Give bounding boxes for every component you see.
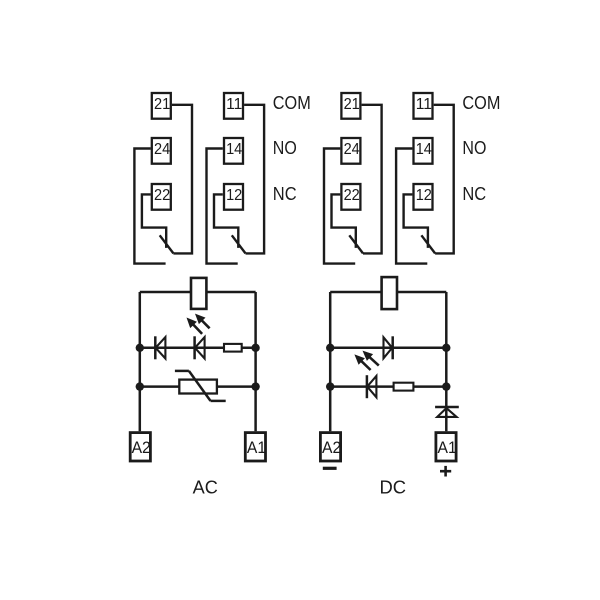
varistor RU top tail (AC) [175, 370, 189, 373]
wire left rail DC [329, 292, 332, 431]
svg-text:COM: COM [273, 93, 311, 113]
polarity plus (DC) [440, 470, 451, 473]
terminal box 21 (unit1 pole2) [152, 93, 171, 119]
junction dot DC [326, 382, 334, 390]
junction dot AC [251, 382, 259, 390]
svg-text:A2: A2 [132, 438, 151, 457]
diode V2 triangle (DC row1) [384, 337, 393, 358]
wire NO from 14 (unit1 pole1) [207, 149, 238, 264]
junction dot DC [442, 382, 450, 390]
wire NO from 24 (unit2 pole2) [324, 149, 355, 264]
resistor R1 (AC) [224, 344, 242, 352]
varistor RU diagonal (AC) [189, 371, 211, 401]
varistor RU bottom tail (AC) [211, 400, 226, 403]
wire NC from 22 with contact stub (unit1 pole2) [142, 194, 166, 248]
wire NC from 12 with contact stub (unit2 pole1) [404, 194, 428, 248]
svg-text:22: 22 [344, 187, 360, 204]
junction dot AC [251, 344, 259, 352]
wire row2 AC [140, 385, 256, 388]
switch blade (unit1 pole1) [232, 235, 246, 253]
terminal box 11 (unit1 pole1) [224, 93, 243, 119]
svg-text:NO: NO [273, 138, 297, 158]
svg-text:11: 11 [416, 96, 432, 113]
svg-text:14: 14 [416, 141, 432, 158]
terminal box 21 (unit2 pole2) [341, 93, 360, 119]
wire COM from 11 to switch (unit2 pole1) [434, 105, 454, 254]
wire NC from 22 with contact stub (unit2 pole2) [332, 194, 356, 248]
terminal box 12 (unit1 pole1) [224, 184, 243, 210]
wire top AC [140, 291, 256, 294]
coil K2 (DC) [382, 277, 397, 309]
varistor RU body (AC) [179, 380, 217, 394]
junction dot AC [136, 382, 144, 390]
switch blade (unit2 pole2) [349, 235, 363, 253]
wire row1 DC [330, 347, 446, 350]
svg-text:COM: COM [462, 93, 500, 113]
switch blade (unit2 pole1) [421, 235, 435, 253]
svg-text:DC: DC [380, 477, 407, 497]
svg-text:22: 22 [154, 187, 170, 204]
wire right rail DC [445, 292, 448, 431]
svg-text:AC: AC [193, 477, 218, 497]
LED arrow 1 (AC) [195, 314, 206, 325]
coil K1 (AC) [191, 278, 206, 309]
terminal box 22 (unit1 pole2) [152, 184, 171, 210]
wire NO from 24 (unit1 pole2) [134, 149, 165, 264]
diode V2 cathode bar (DC row1) [391, 336, 394, 359]
svg-text:NC: NC [273, 184, 297, 204]
terminal box 14 (unit1 pole1) [224, 138, 243, 164]
terminal A2 (DC) [320, 433, 340, 461]
wire NO from 14 (unit2 pole1) [396, 149, 427, 264]
wire COM from 11 to switch (unit1 pole1) [244, 105, 264, 254]
resistor R2 (DC) [394, 383, 414, 391]
diode V3 triangle (DC right rail) [437, 408, 456, 417]
terminal box 22 (unit2 pole2) [341, 184, 360, 210]
junction dot DC [442, 344, 450, 352]
terminal box 14 (unit2 pole1) [414, 138, 433, 164]
svg-text:14: 14 [226, 141, 242, 158]
wire NC from 12 with contact stub (unit1 pole1) [214, 194, 238, 248]
polarity minus (DC) [323, 467, 337, 470]
wire right rail AC [254, 292, 257, 431]
terminal box 24 (unit1 pole2) [152, 138, 171, 164]
terminal box 24 (unit2 pole2) [341, 138, 360, 164]
junction dot AC [136, 344, 144, 352]
svg-text:12: 12 [226, 187, 242, 204]
svg-text:24: 24 [154, 141, 170, 158]
wire COM from 21 to switch (unit1 pole2) [172, 105, 192, 254]
terminal A1 (DC) [436, 433, 456, 461]
svg-text:A1: A1 [438, 438, 457, 457]
wire left rail AC [139, 292, 142, 431]
diode V1 triangle (AC) [156, 337, 166, 358]
LED triangle (DC) [367, 376, 376, 397]
svg-text:12: 12 [416, 187, 432, 204]
svg-text:A2: A2 [322, 438, 341, 457]
LED arrow 2 (DC) [354, 354, 365, 364]
diode V3 cathode bar (DC right rail) [435, 406, 459, 409]
terminal A1 (AC) [245, 433, 265, 461]
terminal box 11 (unit2 pole1) [414, 93, 433, 119]
LED cathode bar (AC) [193, 336, 196, 359]
terminal box 12 (unit2 pole1) [414, 184, 433, 210]
svg-text:21: 21 [154, 96, 170, 113]
switch blade (unit1 pole2) [160, 235, 174, 253]
svg-text:NC: NC [462, 184, 486, 204]
terminal A2 (AC) [130, 433, 150, 461]
junction dot DC [326, 344, 334, 352]
LED arrow 2 (AC) [187, 318, 197, 329]
diode V1 cathode bar (AC) [154, 336, 157, 359]
svg-text:24: 24 [344, 141, 360, 158]
wire row2 DC [330, 385, 446, 388]
LED triangle (AC) [195, 337, 205, 358]
svg-text:11: 11 [226, 96, 242, 113]
wire row1 AC [140, 347, 256, 350]
svg-text:21: 21 [344, 96, 360, 113]
LED arrow 1 (DC) [363, 351, 374, 361]
svg-text:NO: NO [462, 138, 486, 158]
LED cathode bar (DC) [366, 375, 369, 398]
wire COM from 21 to switch (unit2 pole2) [362, 105, 382, 254]
svg-text:A1: A1 [247, 438, 266, 457]
wire top DC [330, 291, 446, 294]
